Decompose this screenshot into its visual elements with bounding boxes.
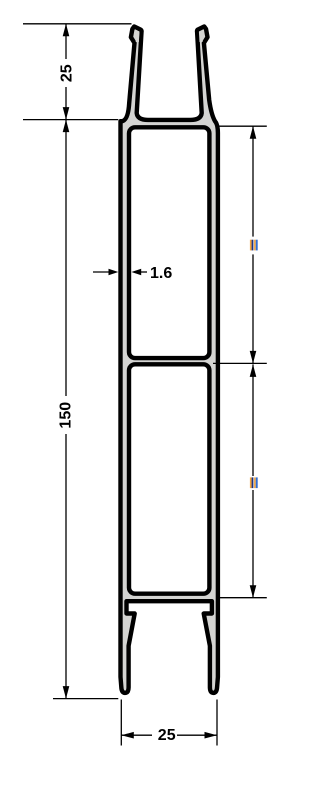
svg-text:150: 150 [57, 402, 74, 429]
svg-text:25: 25 [59, 64, 76, 82]
svg-text:25: 25 [158, 727, 176, 744]
svg-text:1.6: 1.6 [150, 265, 172, 282]
